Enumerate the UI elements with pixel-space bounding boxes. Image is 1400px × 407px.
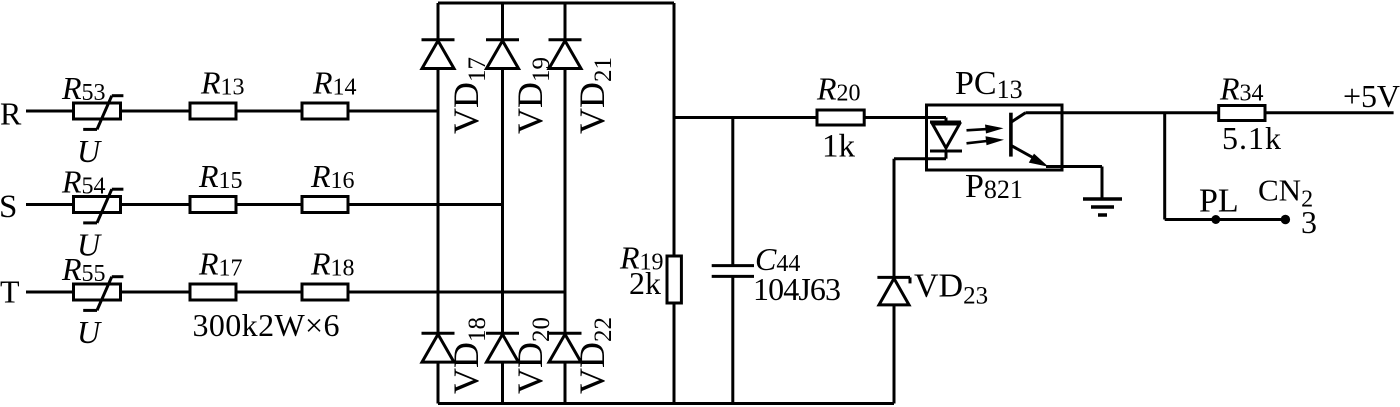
diode VD18: [422, 333, 455, 362]
wire column 2: [501, 3, 504, 404]
svg-text:R18: R18: [310, 246, 355, 282]
svg-text:VD22: VD22: [572, 317, 617, 394]
svg-text:104J63: 104J63: [753, 271, 841, 307]
svg-text:2k: 2k: [629, 265, 661, 301]
svg-text:PL: PL: [1199, 183, 1239, 220]
svg-text:R20: R20: [816, 71, 861, 107]
resistor R14: [302, 103, 348, 119]
wire top bus: [438, 2, 674, 5]
node CN2 pin 3 dot: [1281, 215, 1290, 224]
diode VD22: [549, 333, 582, 362]
svg-text:U: U: [77, 314, 102, 350]
wire column 1: [437, 3, 440, 404]
light arrow 1: [967, 125, 1004, 134]
svg-text:R53: R53: [61, 70, 106, 106]
resistor R13: [190, 103, 236, 119]
varistor R54: [74, 189, 124, 223]
svg-text:R17: R17: [198, 246, 243, 282]
svg-text:S: S: [0, 189, 17, 225]
wire junction drop: [1163, 113, 1166, 220]
wire: [26, 291, 565, 294]
svg-text:3: 3: [1301, 204, 1317, 240]
svg-text:1k: 1k: [822, 129, 856, 165]
svg-text:VD23: VD23: [914, 268, 988, 310]
wire dc output: [674, 116, 946, 119]
resistor R16: [302, 197, 348, 213]
resistor R20: [817, 110, 864, 125]
svg-text:R34: R34: [1219, 71, 1264, 107]
svg-text:VD20: VD20: [510, 317, 555, 394]
svg-text:5.1k: 5.1k: [1222, 120, 1281, 156]
resistor R19: [667, 256, 681, 303]
diode VD20: [486, 333, 519, 362]
wire: [731, 276, 734, 403]
wire: [1101, 167, 1104, 200]
svg-text:300k2W×6: 300k2W×6: [193, 307, 340, 343]
diode VD17: [422, 40, 455, 69]
svg-text:PC13: PC13: [955, 65, 1023, 104]
capacitor C44: [712, 266, 754, 277]
node PL dot: [1211, 215, 1220, 224]
resistor R17: [190, 284, 236, 300]
wire emitter to ground: [1062, 165, 1102, 168]
resistor R34: [1219, 106, 1265, 121]
optocoupler PC13 box: [927, 105, 1063, 170]
wire: [673, 303, 676, 404]
ground: [1083, 199, 1122, 215]
wire column 3: [564, 3, 567, 404]
svg-text:R14: R14: [312, 65, 357, 101]
diode VD21: [549, 40, 582, 69]
svg-text:T: T: [0, 274, 20, 310]
resistor R15: [190, 197, 236, 213]
phototransistor of PC13: [1011, 113, 1062, 167]
wire right edge: [673, 3, 676, 256]
svg-text:R: R: [0, 96, 22, 132]
node R: [0, 0, 2, 2]
zener diode VD23: [877, 277, 910, 305]
svg-text:R16: R16: [310, 158, 355, 194]
resistor R18: [302, 284, 348, 300]
wire PL row: [1165, 218, 1286, 221]
diode VD19: [486, 40, 519, 69]
wire collector output to +5V: [1062, 111, 1394, 114]
svg-text:P821: P821: [965, 168, 1023, 205]
wire: [26, 110, 438, 113]
light arrow 2: [967, 136, 1005, 145]
wire bottom bus: [438, 402, 894, 405]
svg-text:+5V: +5V: [1343, 78, 1400, 114]
varistor R53: [74, 96, 124, 130]
svg-text:VD18: VD18: [446, 317, 491, 394]
wire LED cathode out: [894, 157, 946, 160]
svg-text:R15: R15: [198, 158, 243, 194]
wire C44 column: [731, 118, 734, 266]
wire VD23 column: [893, 159, 896, 404]
svg-text:R13: R13: [200, 65, 245, 101]
wire: [26, 203, 503, 206]
varistor R55: [74, 277, 124, 311]
LED inside PC13: [930, 118, 962, 159]
